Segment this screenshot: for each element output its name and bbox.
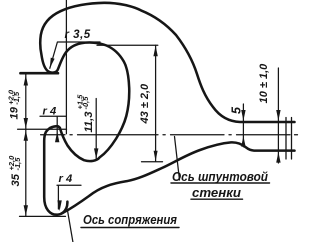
wire underline label axis of wall line2 [191, 198, 243, 200]
node centerline axis of sheet pile wall [41, 134, 298, 136]
wire leader r4 upper [40, 116, 66, 141]
wire bottom transition curve to wall [63, 142, 295, 212]
svg-text:10 ± 1,0: 10 ± 1,0 [258, 63, 270, 104]
node arrowhead r4 upper up [55, 132, 59, 143]
svg-text:-1,5: -1,5 [12, 91, 21, 105]
svg-text:19: 19 [8, 106, 20, 119]
wire dimension line 19 and 35 [25, 75, 27, 217]
wire extension line at finger bottom [20, 215, 66, 217]
wire leader r4 lower [57, 185, 81, 209]
svg-text:11,3: 11,3 [83, 111, 95, 133]
node arrowhead r4 lower down [57, 200, 61, 211]
wire underline label axis of conjugation [81, 227, 179, 229]
wire dimension line 5 [242, 104, 244, 147]
wall end break line right [286, 118, 292, 160]
wire extension line oval top [97, 44, 158, 46]
node arrowhead 35 bottom down [24, 205, 28, 216]
node arrowhead 5 up [241, 136, 245, 147]
node arrowhead 19 bottom down [24, 118, 28, 129]
wire extension line at finger top [18, 128, 67, 130]
svg-text:r 3,5: r 3,5 [65, 29, 91, 41]
wire underline label axis of wall line1 [171, 182, 270, 184]
wire step surface at left [20, 72, 58, 75]
svg-text:43 ± 2,0: 43 ± 2,0 [139, 83, 151, 125]
node arrowhead 43 top up [153, 46, 157, 57]
svg-text:35: 35 [10, 173, 22, 186]
node arrowhead 19 top up [24, 75, 28, 86]
wire outer contour of lock hook [40, 3, 294, 161]
node arrowhead 10 down [276, 110, 280, 121]
svg-text:-0,5: -0,5 [81, 96, 90, 110]
wire finger lower jaw [44, 126, 67, 215]
svg-text:5: 5 [230, 106, 244, 114]
wire dimension line 11,3 [95, 99, 97, 160]
node arrowhead 11,3 down [94, 148, 98, 159]
svg-text:r 4: r 4 [43, 105, 57, 117]
wire leader to label axis of wall [175, 137, 180, 181]
wire dimension line 43 [155, 45, 157, 161]
svg-text:Ось шпунтовой: Ось шпунтовой [172, 170, 268, 184]
wire extension line oval bottom [142, 161, 163, 163]
wire leader r3,5 [50, 42, 100, 68]
svg-text:r 4: r 4 [59, 173, 73, 185]
node arrowhead 5 down [241, 110, 245, 121]
svg-text:Ось сопряжения: Ось сопряжения [83, 213, 178, 227]
node arrowhead 43 bottom down [154, 151, 158, 162]
wire dimension line 10 [277, 68, 279, 163]
node arrowhead r3,5 leader [50, 58, 55, 69]
node arrowhead 35 top up [24, 130, 28, 141]
node vertical axis of conjugation [65, 0, 67, 134]
node arrowhead 10 up [276, 152, 280, 163]
svg-text:-1,5: -1,5 [13, 157, 22, 171]
svg-text:стенки: стенки [192, 186, 241, 200]
